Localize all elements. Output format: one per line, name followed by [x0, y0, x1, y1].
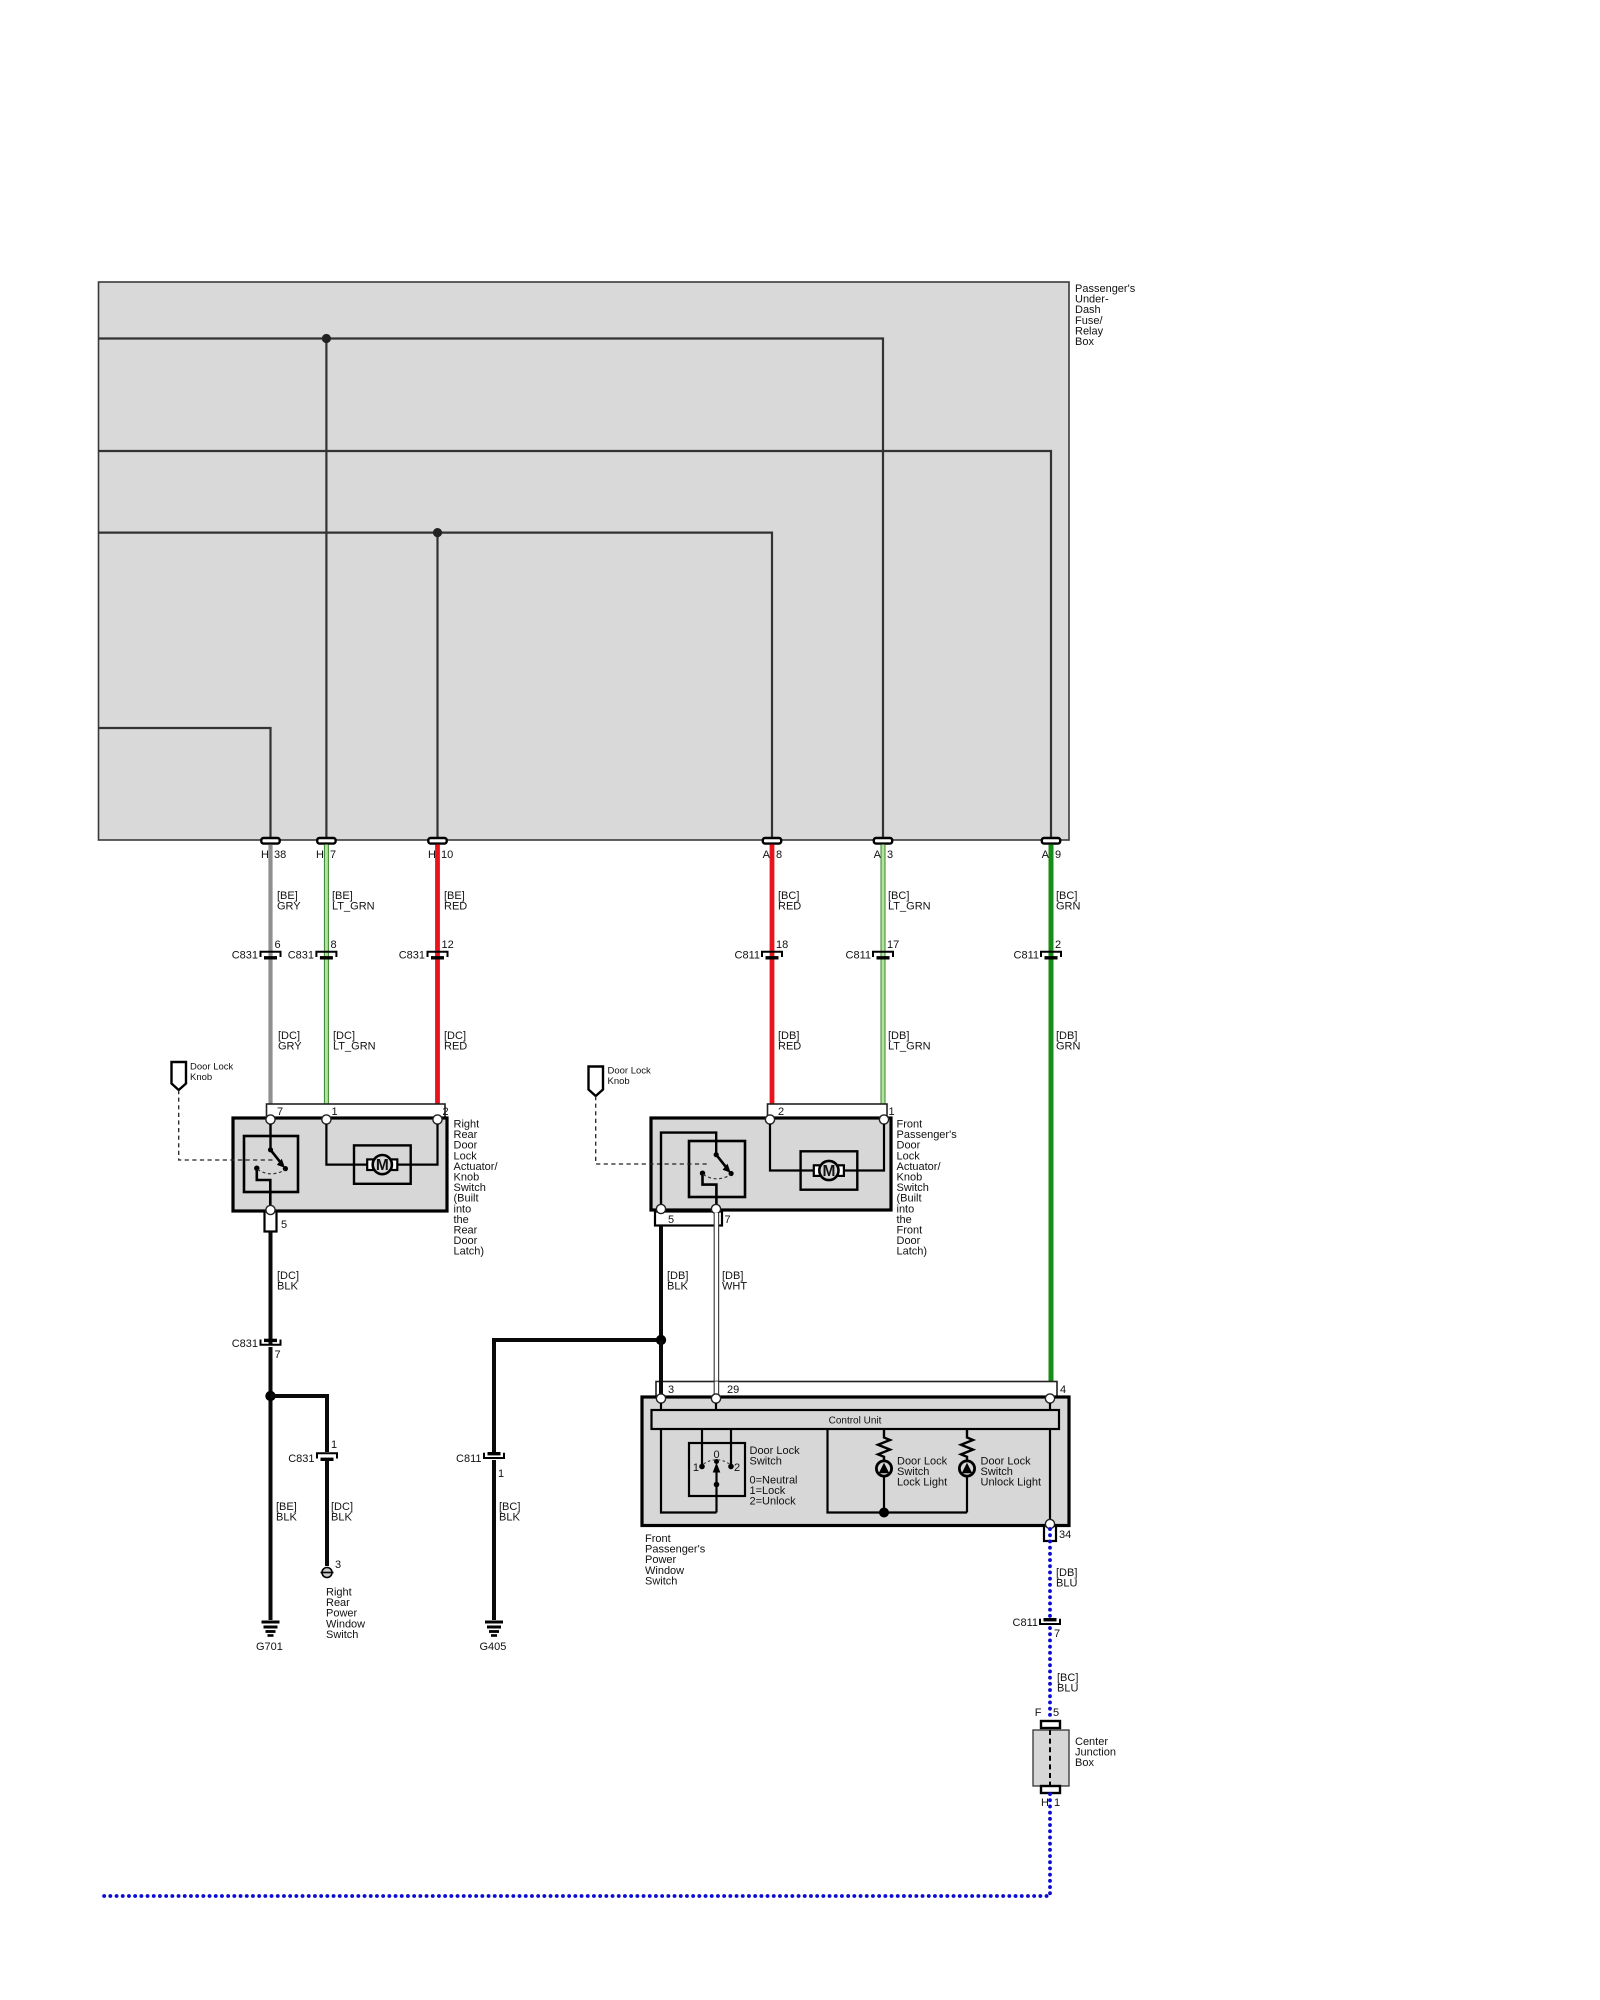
label [DC] LT_GRN	[333, 1030, 376, 1053]
label [DB] GRN	[1056, 1030, 1081, 1053]
svg-text:GRY: GRY	[277, 901, 301, 913]
svg-text:RED: RED	[778, 901, 801, 913]
label [BC] RED	[778, 890, 801, 913]
svg-text:WHT: WHT	[722, 1281, 747, 1293]
svg-text:C811: C811	[1014, 950, 1039, 962]
svg-text:4: 4	[1060, 1384, 1066, 1396]
label [DC] RED	[444, 1030, 467, 1053]
wire BLK continues below C831	[269, 1347, 273, 1620]
svg-text:Door Lock: Door Lock	[190, 1062, 234, 1073]
svg-text:LT_GRN: LT_GRN	[333, 1041, 376, 1053]
wire [DB] BLK from right actuator pin5	[659, 1226, 663, 1398]
wire: bus branch to pin H7	[325, 339, 327, 841]
wire BLK into pin 3	[659, 1340, 663, 1398]
label [BE] RED	[444, 890, 467, 913]
svg-text:BLK: BLK	[499, 1512, 520, 1524]
connector C831 pin 1	[288, 1439, 337, 1465]
pin A 3	[874, 838, 893, 861]
pin A 9	[1042, 838, 1061, 861]
pin 7 exit circle (right actuator)	[711, 1204, 720, 1213]
connector bar on top of left actuator	[267, 1104, 449, 1118]
svg-text:GRN: GRN	[1056, 1041, 1081, 1053]
svg-text:7: 7	[330, 849, 336, 861]
svg-text:C811: C811	[735, 950, 760, 962]
pin 1 entry circle (right actuator)	[879, 1115, 888, 1124]
svg-text:BLK: BLK	[277, 1281, 298, 1293]
svg-text:12: 12	[442, 939, 454, 951]
wire [DC] BLK from pin5 (left)	[269, 1232, 273, 1346]
connector bar on top of control unit	[656, 1382, 1066, 1397]
svg-text:BLU: BLU	[1056, 1578, 1077, 1590]
svg-text:LT_GRN: LT_GRN	[888, 901, 931, 913]
svg-text:5: 5	[668, 1214, 674, 1226]
wire: door lock switch common to pin3 path	[661, 1429, 717, 1513]
pin H 10	[428, 838, 453, 861]
dashed link: knob to knob switch (left)	[179, 1090, 273, 1160]
connector C811 pin 7 (blue wire)	[1013, 1617, 1061, 1640]
wire: control unit to pin 34	[1049, 1429, 1051, 1524]
svg-text:Box: Box	[1075, 1757, 1094, 1769]
label [BC] LT_GRN	[888, 890, 931, 913]
label [DC] BLK (branch)	[331, 1501, 353, 1524]
resistor R2 (unlock light)	[961, 1429, 973, 1461]
switch contact and wire to pin5 (left)	[254, 1166, 270, 1210]
svg-text:LT_GRN: LT_GRN	[332, 901, 375, 913]
svg-text:0: 0	[713, 1449, 719, 1461]
pin 34 connector stub	[1044, 1526, 1071, 1541]
wire: bus line 1 to pin A3	[99, 339, 884, 841]
svg-text:Unlock Light: Unlock Light	[981, 1477, 1042, 1489]
label [DB] WHT	[722, 1270, 747, 1293]
wire WHT into pin 29	[714, 1382, 718, 1399]
front passenger's door lock actuator box	[651, 1118, 891, 1210]
label [DB] RED	[778, 1030, 801, 1053]
wire: pin7 to switch pivot (left)	[269, 1124, 271, 1150]
svg-text:BLK: BLK	[276, 1512, 297, 1524]
svg-text:Control Unit: Control Unit	[829, 1416, 882, 1427]
pin 7 entry circle (left actuator)	[266, 1115, 275, 1124]
wire: bus line 4 to pin H38	[99, 728, 271, 840]
svg-text:34: 34	[1059, 1529, 1071, 1541]
junction on BLK wire	[265, 1391, 275, 1401]
connector C811 pin 18	[735, 939, 789, 962]
svg-text:2: 2	[778, 1106, 784, 1118]
wire: bus branch to pin H10	[436, 533, 438, 840]
svg-text:1: 1	[693, 1462, 699, 1474]
svg-text:Box: Box	[1075, 336, 1094, 348]
svg-text:RED: RED	[778, 1041, 801, 1053]
pin 3 entry circle (control unit)	[656, 1394, 665, 1403]
svg-text:C811: C811	[846, 950, 871, 962]
wire [DB] WHT from right actuator pin7 to control unit pin29	[714, 1213, 718, 1397]
motor outer frame (right)	[801, 1151, 858, 1189]
connector C831 pin 8	[288, 939, 337, 962]
svg-text:M: M	[822, 1163, 835, 1180]
svg-text:1: 1	[1054, 1797, 1060, 1809]
switch pivot and lever (right)	[714, 1152, 734, 1176]
svg-text:1: 1	[331, 1439, 337, 1451]
svg-text:LT_GRN: LT_GRN	[888, 1041, 931, 1053]
dashed throw arc (door lock switch)	[704, 1460, 730, 1464]
pin 5 connector stub (left actuator)	[265, 1212, 288, 1232]
pin 2 entry circle (left actuator)	[433, 1115, 442, 1124]
svg-text:17: 17	[887, 939, 899, 951]
wire [BE]/[DC] RED H10 to actuator pin2	[435, 845, 440, 1106]
svg-text:7: 7	[277, 1106, 283, 1118]
svg-text:9: 9	[1055, 849, 1061, 861]
label [BE] BLK	[276, 1501, 297, 1524]
label [BC] BLU	[1057, 1672, 1078, 1695]
label: Front Passenger's Power Window Switch	[645, 1533, 706, 1587]
junction: bus3/H10	[433, 528, 442, 537]
dashed throw arc (right switch)	[703, 1175, 731, 1179]
label: Right Rear Power Window Switch	[326, 1587, 365, 1641]
svg-text:6: 6	[275, 939, 281, 951]
pin A 8	[763, 838, 782, 861]
svg-text:RED: RED	[444, 1041, 467, 1053]
pin F 5 (center junction box top)	[1035, 1707, 1060, 1728]
svg-text:A: A	[1042, 849, 1050, 861]
svg-text:2: 2	[443, 1106, 449, 1118]
svg-text:BLK: BLK	[331, 1512, 352, 1524]
pin 34 exit circle (control unit)	[1045, 1519, 1054, 1528]
pin 5 exit circle (right actuator)	[656, 1204, 665, 1213]
pin 29 entry circle (control unit)	[711, 1394, 720, 1403]
terminal 3 of right rear power window switch	[321, 1559, 342, 1578]
fuse/relay box: Passenger's Under-Dash Fuse/Relay Box	[99, 282, 1070, 840]
svg-text:3: 3	[887, 849, 893, 861]
switch contact and wire to pin7 (right)	[700, 1171, 717, 1210]
svg-text:F: F	[1035, 1707, 1042, 1719]
svg-text:C831: C831	[232, 950, 258, 962]
control unit bar	[652, 1410, 1060, 1429]
dashed link: knob to knob switch (right)	[596, 1096, 709, 1164]
svg-text:Lock Light: Lock Light	[897, 1477, 947, 1489]
connector C811 pin 17	[846, 939, 900, 962]
junction: bus1/H7	[322, 334, 331, 343]
connector C831 pin 7 (on left BLK wire)	[232, 1338, 281, 1361]
svg-text:C831: C831	[288, 950, 314, 962]
label: Door Lock Knob (left)	[190, 1062, 234, 1084]
pin 4 entry circle (control unit)	[1045, 1394, 1054, 1403]
wire [BE]/[DC] LT_GRN H7 to actuator pin1	[324, 845, 329, 1106]
wire [BC]/[DB] GRN A9 to control unit pin4	[1049, 845, 1054, 1383]
svg-text:10: 10	[441, 849, 453, 861]
svg-text:1: 1	[889, 1106, 895, 1118]
svg-text:1: 1	[332, 1106, 338, 1118]
svg-text:BLK: BLK	[667, 1281, 688, 1293]
label [DB] LT_GRN	[888, 1030, 931, 1053]
svg-text:C831: C831	[288, 1453, 314, 1465]
wire branch to C831 pin 1	[271, 1396, 328, 1452]
bottom connector bar (right actuator pins 5,7)	[655, 1212, 731, 1227]
pin H 38	[261, 838, 286, 861]
dashed internal link (center junction box)	[1049, 1730, 1051, 1786]
pin H 7	[316, 838, 336, 861]
svg-text:Latch): Latch)	[897, 1246, 928, 1258]
svg-text:Knob: Knob	[190, 1072, 212, 1083]
motor branch wires (right)	[770, 1124, 884, 1171]
label: Door Lock Knob (right)	[608, 1066, 652, 1088]
svg-text:M: M	[376, 1157, 389, 1174]
inner knob switch square (left)	[244, 1136, 298, 1192]
door lock switch contacts and arrow	[693, 1449, 740, 1513]
door lock switch square	[689, 1443, 745, 1496]
motor M1 (left actuator)	[367, 1155, 397, 1174]
svg-text:RED: RED	[444, 901, 467, 913]
pin 5 exit circle (left actuator)	[266, 1205, 275, 1214]
lamp: door lock switch unlock light	[959, 1461, 974, 1513]
wire [BC]/[DB] RED A8 to actuator pin2	[770, 845, 775, 1106]
switch pivot and lever (left)	[268, 1147, 288, 1171]
svg-text:GRY: GRY	[278, 1041, 302, 1053]
label [DC] GRY	[278, 1030, 302, 1053]
label [BC] GRN	[1056, 890, 1081, 913]
svg-text:G701: G701	[256, 1641, 283, 1653]
door lock knob symbol (right)	[589, 1067, 604, 1097]
label: Passenger's Under-Dash Fuse/Relay Box	[1075, 283, 1136, 348]
svg-text:C811: C811	[1013, 1617, 1038, 1629]
svg-text:Latch): Latch)	[454, 1246, 485, 1258]
svg-text:BLU: BLU	[1057, 1683, 1078, 1695]
wire [BE]/[DC] GRY H38 to actuator pin7	[268, 845, 272, 1106]
connector C811 pin 2	[1014, 939, 1062, 962]
label [BC] BLK	[499, 1501, 520, 1524]
svg-text:C831: C831	[232, 1338, 258, 1350]
junction dot right actuator BLK	[656, 1335, 666, 1345]
svg-text:Switch: Switch	[750, 1456, 782, 1468]
label [DB] BLU	[1056, 1567, 1077, 1590]
wire BLK to G405	[492, 1460, 496, 1620]
svg-text:7: 7	[275, 1349, 281, 1361]
lamp: door lock switch lock light	[876, 1461, 891, 1513]
connector C811 pin 1	[456, 1453, 504, 1480]
wire [BC]/[DB] LT_GRN A3 to actuator pin1	[881, 845, 886, 1106]
wire: pin5 riser and link to pivot (right)	[661, 1133, 716, 1209]
svg-text:3: 3	[335, 1559, 341, 1571]
wires from pins into control unit bar	[661, 1403, 1050, 1410]
svg-text:GRN: GRN	[1056, 901, 1081, 913]
label: Door Lock Switch legend	[750, 1445, 801, 1508]
svg-text:A: A	[763, 849, 771, 861]
inner knob switch square (right)	[689, 1141, 745, 1197]
svg-text:C811: C811	[456, 1453, 481, 1465]
label: Door Lock Switch Lock Light	[897, 1456, 948, 1489]
wire [DB] BLU dotted from pin 34	[1048, 1529, 1052, 1618]
svg-text:Switch: Switch	[645, 1575, 677, 1587]
wire: bus line 3 to pin A8	[99, 533, 773, 840]
label [BE] LT_GRN	[332, 890, 375, 913]
motor branch wires (left)	[326, 1124, 437, 1165]
svg-text:H: H	[428, 849, 436, 861]
resistor R1 (lock light)	[878, 1429, 890, 1461]
svg-text:5: 5	[1053, 1707, 1059, 1719]
svg-text:C831: C831	[399, 950, 425, 962]
right rear door lock actuator box	[233, 1118, 447, 1211]
svg-text:2: 2	[734, 1462, 740, 1474]
svg-text:29: 29	[727, 1384, 739, 1396]
connector C831 pin 6	[232, 939, 281, 962]
svg-text:18: 18	[776, 939, 788, 951]
wire: bus line 2 to pin A9	[99, 451, 1052, 840]
junction dot on lamp return bus	[879, 1508, 889, 1518]
svg-text:2=Unlock: 2=Unlock	[750, 1496, 797, 1508]
wire BLU dotted from H1 to page edge	[99, 1794, 1050, 1896]
door lock knob symbol (left)	[172, 1062, 187, 1090]
label [DB] BLK	[667, 1270, 688, 1293]
svg-text:7: 7	[1054, 1628, 1060, 1640]
label: Center Junction Box	[1075, 1736, 1116, 1769]
front passenger's power window switch box	[642, 1397, 1069, 1526]
label [BE] GRY	[277, 890, 301, 913]
center junction box	[1033, 1730, 1069, 1786]
svg-text:1: 1	[498, 1468, 504, 1480]
svg-text:H: H	[261, 849, 269, 861]
connector bar on top of right actuator	[768, 1104, 895, 1118]
pin 1 entry circle (left actuator)	[322, 1115, 331, 1124]
svg-text:H: H	[316, 849, 324, 861]
svg-text:38: 38	[274, 849, 286, 861]
wire [BC] BLU dotted to center junction box	[1048, 1628, 1052, 1721]
motor outer frame (left)	[354, 1145, 411, 1183]
svg-text:2: 2	[1055, 939, 1061, 951]
svg-text:Knob: Knob	[608, 1076, 630, 1087]
wire branch continues to window switch terminal	[325, 1460, 329, 1566]
label: Door Lock Switch Unlock Light	[981, 1456, 1042, 1489]
connector C831 pin 12	[399, 939, 454, 962]
pin 2 entry circle (right actuator)	[765, 1115, 774, 1124]
svg-text:Door Lock: Door Lock	[608, 1066, 652, 1077]
svg-text:G405: G405	[480, 1641, 507, 1653]
ground G405	[480, 1622, 507, 1653]
svg-text:7: 7	[725, 1214, 731, 1226]
label: Front Passenger's Door Lock Actuator/Knob Switch	[897, 1119, 958, 1258]
pin H 1 (center junction box bottom)	[1041, 1786, 1060, 1809]
dashed throw arc (left switch)	[258, 1170, 286, 1174]
svg-text:A: A	[874, 849, 882, 861]
motor M2 (right actuator)	[814, 1161, 844, 1180]
wire from right actuator BLK to C811	[494, 1340, 661, 1452]
svg-text:8: 8	[331, 939, 337, 951]
svg-text:5: 5	[281, 1219, 287, 1231]
svg-text:Switch: Switch	[326, 1629, 358, 1641]
svg-text:3: 3	[668, 1384, 674, 1396]
wires: door lock switch contacts from control unit	[702, 1429, 731, 1467]
label [DC] BLK (below left actuator)	[277, 1270, 299, 1293]
svg-text:H: H	[1041, 1797, 1049, 1809]
label: Right Rear Door Lock Actuator/Knob Switch	[454, 1119, 499, 1258]
svg-text:8: 8	[776, 849, 782, 861]
lamp return bus inside control unit	[828, 1429, 968, 1513]
ground G701	[256, 1622, 283, 1653]
